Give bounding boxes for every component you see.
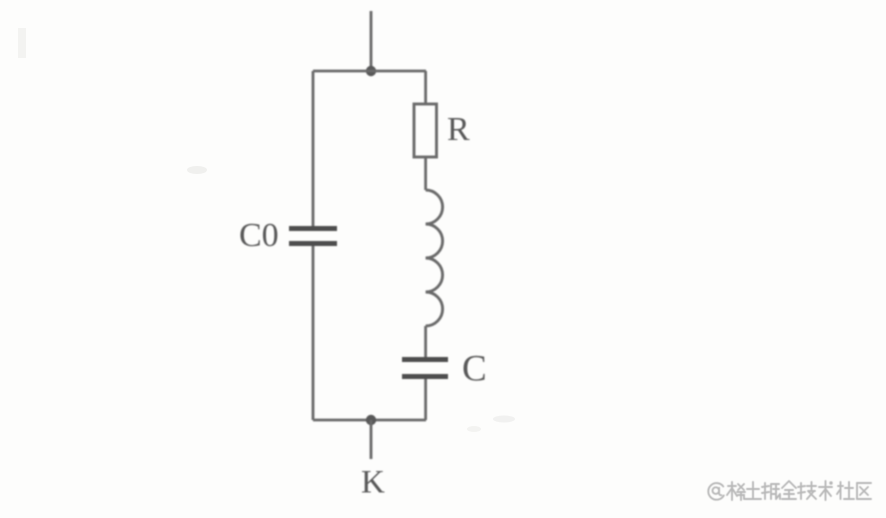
wire resistor to coil <box>424 157 427 190</box>
wire right branch top <box>424 71 427 104</box>
node top junction <box>366 66 376 76</box>
watermark 技 <box>798 482 816 499</box>
watermark @稀土掘金技术社区 <box>708 481 871 500</box>
watermark 土 <box>745 482 761 499</box>
capacitor C0 <box>289 229 337 244</box>
watermark 区 <box>857 483 871 499</box>
inductor L coil <box>426 190 443 326</box>
bottom terminal wire K <box>370 420 373 459</box>
wire top rail <box>313 70 426 73</box>
wire coil to capacitor C <box>424 326 427 357</box>
svg-text:C0: C0 <box>239 217 279 254</box>
top terminal wire <box>370 11 373 71</box>
watermark 金 <box>782 481 796 499</box>
node bottom junction <box>366 415 376 425</box>
svg-text:K: K <box>361 465 385 501</box>
watermark 社 <box>837 482 854 499</box>
capacitor C <box>402 360 448 377</box>
watermark 掘 <box>762 483 780 499</box>
resistor R <box>414 104 437 157</box>
watermark 术 <box>819 481 832 500</box>
watermark @ <box>708 483 724 500</box>
wire bottom rail <box>313 419 426 422</box>
wire capacitor C to bottom rail <box>424 379 427 420</box>
svg-text:C: C <box>462 349 487 390</box>
watermark 稀 <box>727 482 745 500</box>
wire left branch lower <box>312 246 315 420</box>
svg-text:R: R <box>447 111 470 148</box>
wire left branch upper <box>312 71 315 226</box>
